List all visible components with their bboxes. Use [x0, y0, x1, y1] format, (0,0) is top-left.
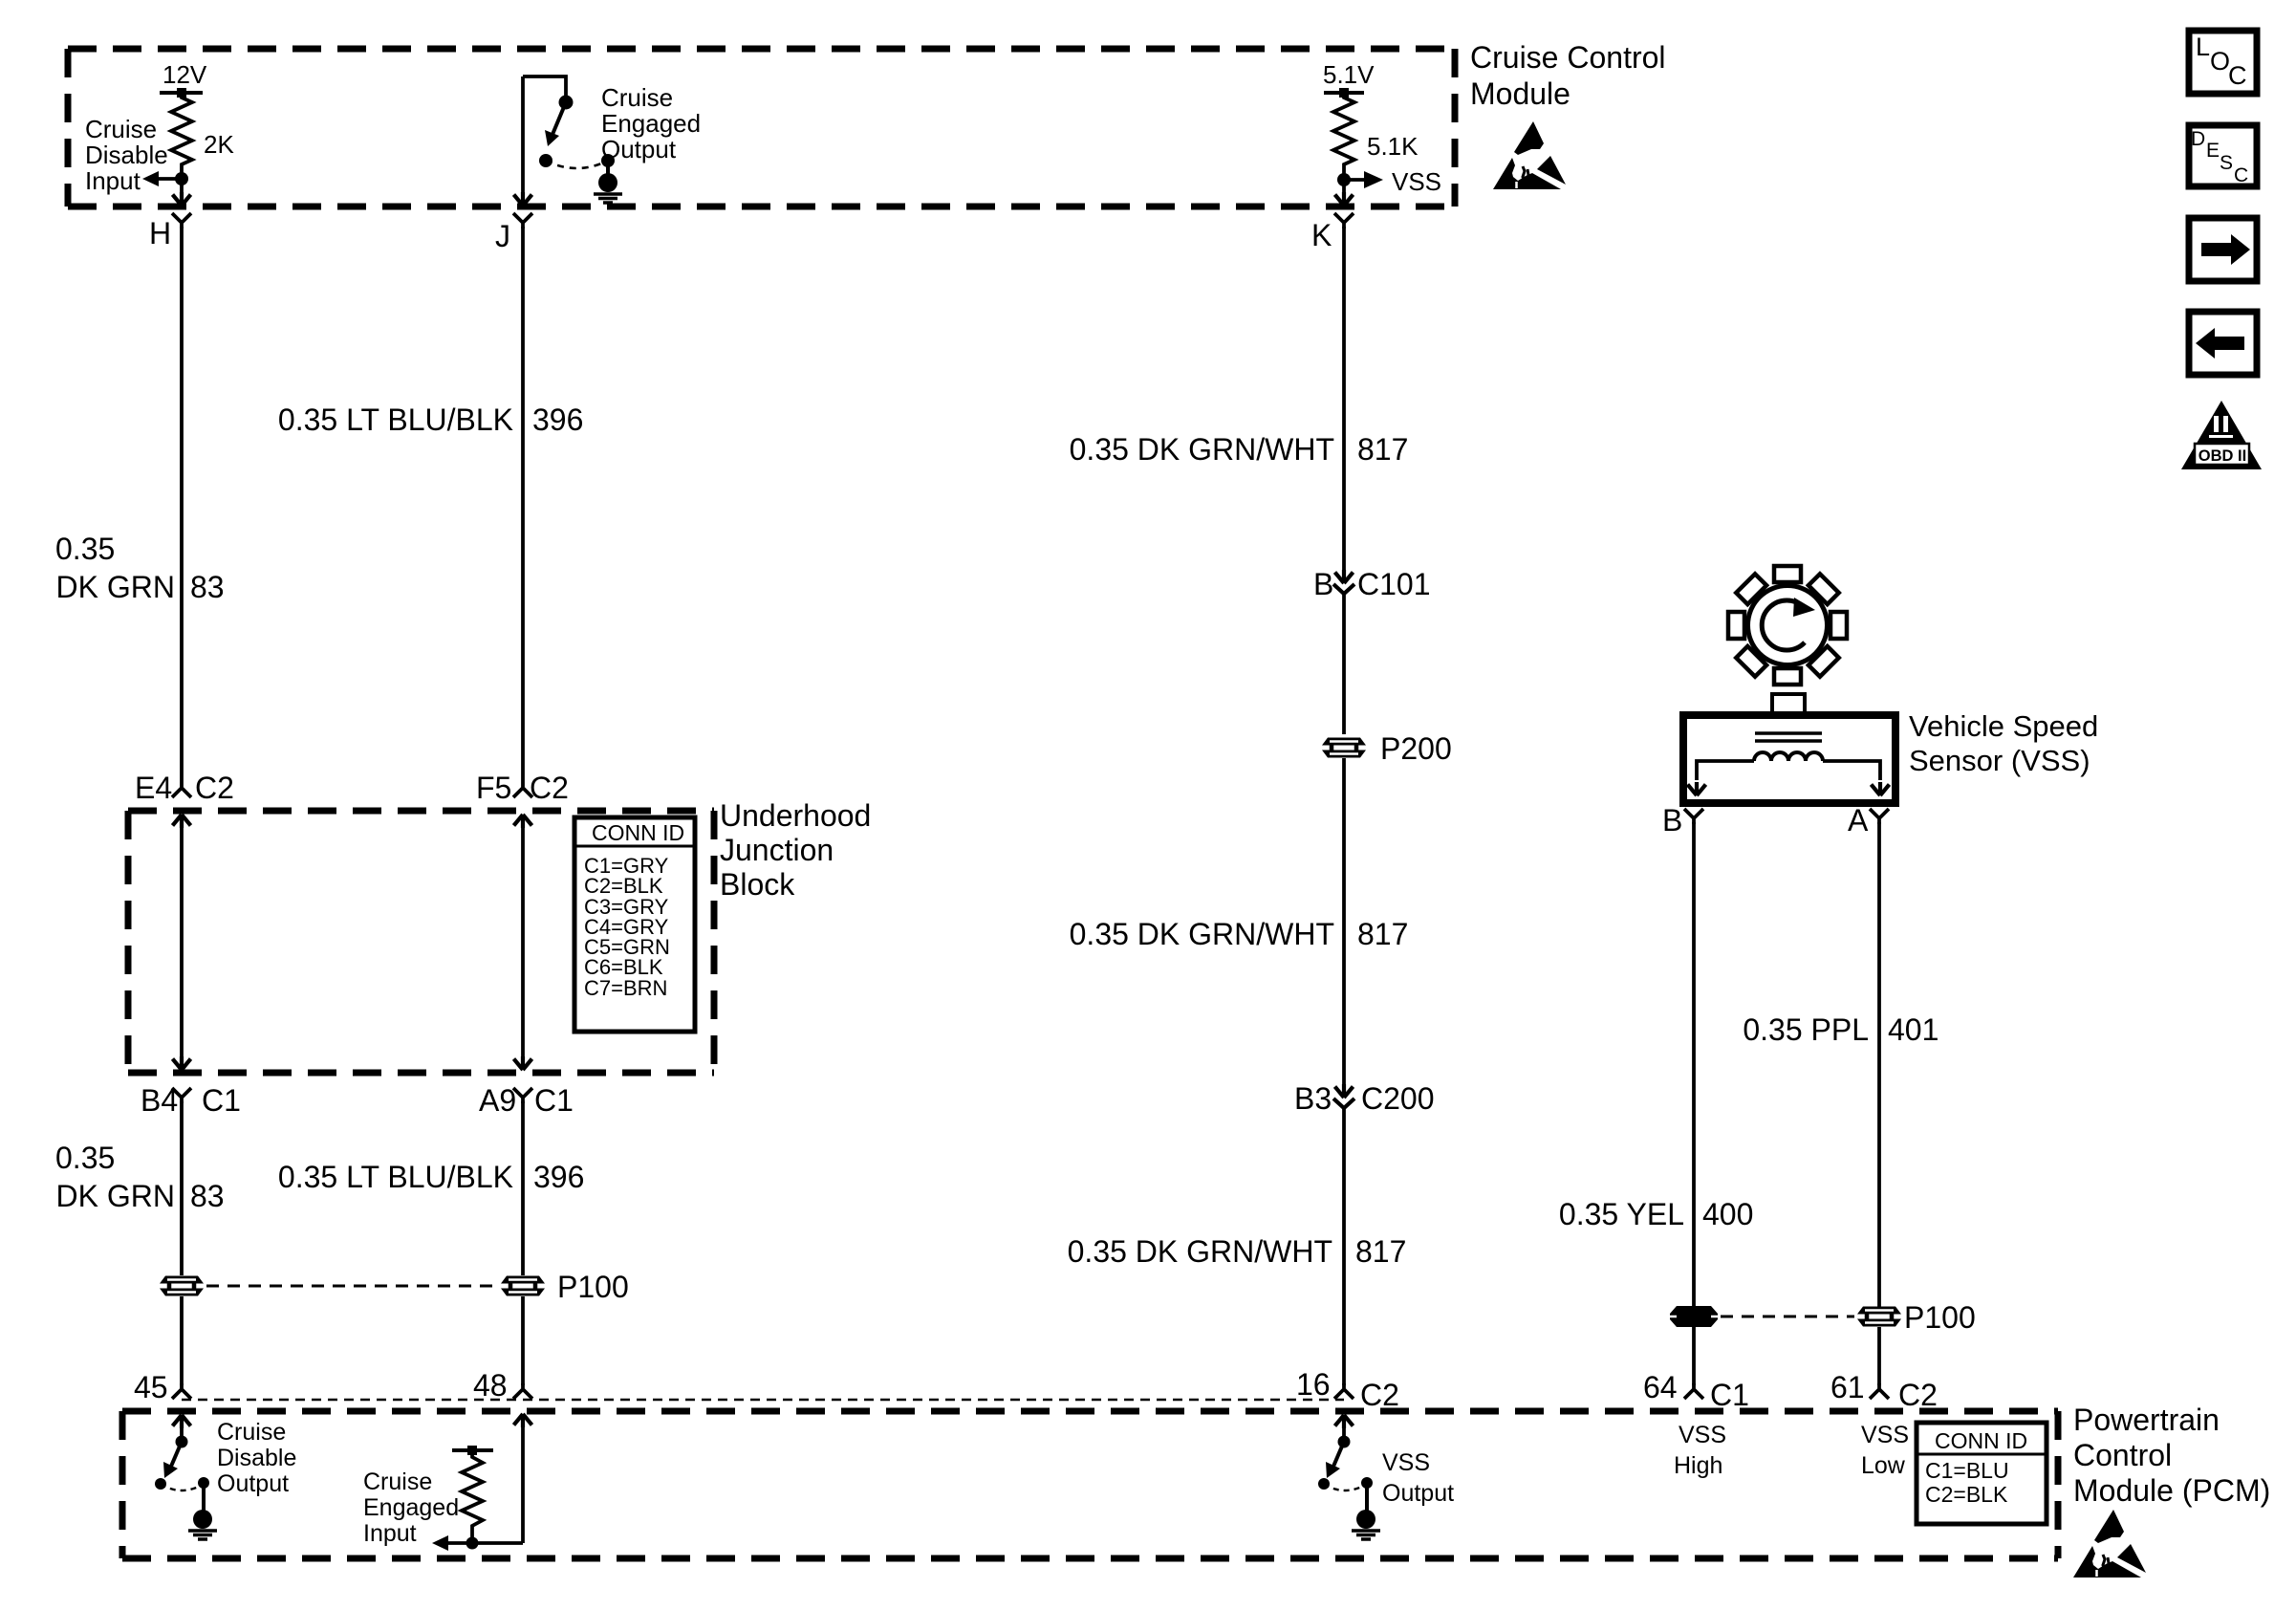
wire A (0.35 PPL 401): [1877, 822, 1881, 1307]
svg-text:5.1V: 5.1V: [1323, 60, 1375, 89]
svg-text:83: 83: [190, 570, 225, 604]
node dot K: [1337, 173, 1351, 186]
label VSS High: [1674, 1422, 1726, 1479]
svg-text:H: H: [149, 216, 171, 250]
svg-text:Engaged: Engaged: [363, 1494, 459, 1521]
svg-text:817: 817: [1357, 432, 1408, 467]
svg-text:45: 45: [134, 1370, 168, 1404]
svg-text:0.35 LT BLU/BLK: 0.35 LT BLU/BLK: [278, 1160, 513, 1194]
svg-text:Disable: Disable: [217, 1445, 296, 1471]
switch VSS Output: [1318, 1415, 1373, 1511]
svg-text:Vehicle Speed: Vehicle Speed: [1909, 709, 2098, 743]
svg-text:CONN ID: CONN ID: [1935, 1428, 2027, 1453]
svg-text:P200: P200: [1380, 731, 1452, 766]
P100 mating dashed line (VSS): [1721, 1316, 1854, 1318]
svg-text:CONN ID: CONN ID: [592, 820, 684, 845]
pin K connector fork: [1311, 213, 1354, 252]
svg-text:12V: 12V: [162, 60, 207, 89]
svg-text:Output: Output: [217, 1470, 289, 1497]
svg-text:396: 396: [532, 402, 583, 437]
inline connector P100 (left half, wire 45): [160, 1276, 204, 1296]
ground (Cruise Disable Output): [188, 1510, 217, 1539]
svg-text:817: 817: [1357, 917, 1408, 951]
UJB internal wire left with arrows: [173, 815, 191, 1070]
svg-text:C2: C2: [1360, 1378, 1399, 1412]
label Cruise Control Module: [1470, 40, 1666, 111]
svg-text:B4: B4: [141, 1083, 178, 1118]
Cruise Control Module dashed box: [68, 49, 1455, 207]
svg-text:O: O: [2210, 47, 2230, 76]
svg-text:B3: B3: [1294, 1081, 1332, 1116]
label Cruise Engaged Input: [363, 1469, 459, 1547]
svg-text:Cruise Control: Cruise Control: [1470, 40, 1666, 75]
svg-text:B: B: [1662, 803, 1682, 838]
wire 48 into PCM with arrow: [514, 1414, 532, 1543]
svg-text:Control: Control: [2073, 1438, 2172, 1472]
pin 64 C1 connector fork: [1643, 1370, 1749, 1412]
svg-text:A: A: [1848, 803, 1869, 838]
wire label 0.35 DK GRN/WHT 817 (middle): [1070, 917, 1409, 951]
svg-text:400: 400: [1702, 1197, 1753, 1231]
svg-text:5.1K: 5.1K: [1367, 132, 1419, 161]
wire P100 to pin 45: [180, 1296, 184, 1385]
wire A9 to P100 (0.35 LT BLU/BLK 396): [521, 1101, 525, 1275]
Cruise Disable Input left arrow: [142, 171, 182, 186]
svg-text:Cruise: Cruise: [363, 1469, 432, 1495]
svg-text:Underhood: Underhood: [720, 798, 871, 833]
wire label 0.35 LT BLU/BLK 396 (upper): [278, 402, 583, 437]
svg-text:0.35 LT BLU/BLK: 0.35 LT BLU/BLK: [278, 402, 513, 437]
svg-text:K: K: [1311, 218, 1332, 252]
wire H stub with arrow into CCM edge: [173, 179, 191, 206]
wire label 0.35 DK GRN/WHT 817 (lower): [1068, 1234, 1407, 1269]
wire J (0.35 LT BLU/BLK 396) CCM to UJB: [521, 227, 525, 782]
node dot H: [175, 172, 188, 185]
svg-text:Powertrain: Powertrain: [2073, 1403, 2220, 1437]
svg-text:C2: C2: [1898, 1378, 1938, 1412]
svg-text:VSS: VSS: [1392, 167, 1441, 196]
svg-text:64: 64: [1643, 1370, 1678, 1404]
forward arrow box: [2189, 218, 2257, 281]
inline connector P100 solid (wire 64): [1670, 1306, 1718, 1327]
wire label 0.35 LT BLU/BLK 396 (lower): [278, 1160, 584, 1194]
pin 48 connector fork: [473, 1368, 532, 1403]
ESD symbol (PCM): [2073, 1510, 2146, 1577]
svg-text:VSS: VSS: [1679, 1422, 1726, 1448]
svg-text:Input: Input: [363, 1520, 417, 1547]
svg-text:A9: A9: [479, 1083, 516, 1118]
label Powertrain Control Module (PCM): [2073, 1403, 2270, 1508]
svg-text:C101: C101: [1357, 567, 1431, 601]
wire K segment C101 to P200: [1342, 594, 1346, 734]
VSS pickup coil: [1754, 752, 1823, 761]
CONN ID table (PCM): [1917, 1423, 2047, 1524]
pin A connector fork: [1848, 803, 1889, 838]
svg-text:C1: C1: [1710, 1378, 1749, 1412]
svg-text:E: E: [2206, 140, 2220, 162]
svg-text:Disable: Disable: [85, 141, 168, 169]
label VSS Output: [1382, 1449, 1454, 1507]
wire B (0.35 YEL 400): [1692, 822, 1696, 1307]
svg-text:0.35 DK GRN/WHT: 0.35 DK GRN/WHT: [1070, 432, 1334, 467]
svg-text:Output: Output: [1382, 1480, 1454, 1507]
pin 16 C2 connector fork: [1296, 1367, 1399, 1412]
svg-text:VSS: VSS: [1861, 1422, 1909, 1448]
svg-text:401: 401: [1888, 1012, 1939, 1047]
pin B4 C1 connector fork: [141, 1083, 241, 1118]
pin B connector fork: [1662, 803, 1703, 838]
connector B3 C200: [1294, 1081, 1435, 1116]
P100 mating dashed line: [206, 1285, 498, 1288]
wire J inside CCM with arrow: [514, 76, 532, 206]
svg-text:0.35: 0.35: [55, 532, 115, 566]
inline connector P100 (wire 61): [1857, 1300, 1976, 1335]
svg-text:Low: Low: [1861, 1452, 1906, 1479]
wire K stub with arrow into CCM edge: [1335, 180, 1354, 206]
svg-text:Cruise: Cruise: [85, 115, 157, 143]
wire K segment C200 to PCM: [1342, 1108, 1346, 1385]
svg-text:P100: P100: [1904, 1300, 1976, 1335]
pin H connector fork: [149, 213, 191, 250]
svg-text:16: 16: [1296, 1367, 1331, 1402]
svg-text:Output: Output: [601, 135, 677, 163]
svg-text:VSS: VSS: [1382, 1449, 1430, 1476]
VSS internal wiring with arrows: [1688, 761, 1890, 795]
wire label 0.35 DK GRN 83 (upper): [55, 532, 225, 604]
svg-text:L: L: [2196, 33, 2210, 61]
svg-text:0.35 DK GRN/WHT: 0.35 DK GRN/WHT: [1070, 917, 1334, 951]
wire label 0.35 DK GRN 83 (lower): [55, 1141, 225, 1213]
UJB internal wire right with arrows: [514, 815, 532, 1070]
wire B4 to P100 (0.35 DK GRN 83): [180, 1101, 184, 1275]
svg-text:High: High: [1674, 1452, 1722, 1479]
ESD symbol (Cruise Control Module): [1493, 121, 1566, 189]
svg-text:83: 83: [190, 1179, 225, 1213]
svg-text:C2: C2: [530, 771, 569, 805]
svg-text:C200: C200: [1361, 1081, 1435, 1116]
wire P100 to pin 64: [1692, 1327, 1696, 1385]
svg-text:Junction: Junction: [720, 833, 834, 867]
5.1V supply bus: [1323, 60, 1375, 98]
svg-text:C1: C1: [534, 1083, 574, 1118]
wire label 0.35 DK GRN/WHT 817 (upper): [1070, 432, 1409, 467]
svg-text:DK GRN: DK GRN: [56, 570, 175, 604]
svg-text:D: D: [2191, 128, 2205, 150]
svg-text:0.35 PPL: 0.35 PPL: [1743, 1012, 1869, 1047]
svg-text:C1=BLU: C1=BLU: [1925, 1458, 2009, 1483]
wire H (0.35 DK GRN 83) CCM to UJB: [180, 227, 184, 782]
wire label 0.35 PPL 401: [1743, 1012, 1939, 1047]
wire P100 to pin 61: [1877, 1327, 1881, 1385]
svg-text:817: 817: [1355, 1234, 1406, 1269]
svg-text:S: S: [2220, 152, 2233, 174]
VSS reluctor gear icon: [1703, 541, 1871, 708]
ground (Cruise Engaged Output): [594, 173, 622, 203]
svg-text:Input: Input: [85, 166, 141, 195]
pin 45 connector fork: [134, 1370, 191, 1404]
connector B C101: [1313, 567, 1431, 601]
resistor 2K: [171, 93, 234, 175]
svg-text:61: 61: [1830, 1370, 1865, 1404]
svg-text:0.35: 0.35: [55, 1141, 115, 1175]
DESC legend box: [2189, 125, 2257, 186]
OBD II symbol: [2181, 401, 2262, 469]
wire label 0.35 YEL 400: [1559, 1197, 1753, 1231]
CONN ID table (Underhood Junction Block): [574, 817, 695, 1032]
pin A9 C1 connector fork: [479, 1083, 574, 1118]
wire P100 to pin 48: [521, 1296, 525, 1385]
wire K (0.35 DK GRN/WHT 817) upper segment: [1342, 227, 1346, 571]
svg-text:C2=BLK: C2=BLK: [1925, 1482, 2008, 1507]
VSS output arrow: [1344, 167, 1441, 196]
label VSS Low: [1861, 1422, 1909, 1479]
pin 61 C2 connector fork: [1830, 1370, 1938, 1412]
PCM interface dashed tie line: [182, 1399, 1344, 1402]
pin E4 C2 connector fork: [135, 771, 234, 805]
svg-text:Block: Block: [720, 867, 795, 902]
pin J connector fork: [495, 213, 532, 253]
svg-text:J: J: [495, 219, 510, 253]
resistor Cruise Engaged Input: [432, 1446, 523, 1551]
svg-text:Module: Module: [1470, 76, 1570, 111]
svg-text:Engaged: Engaged: [601, 109, 701, 138]
svg-text:Cruise: Cruise: [601, 83, 673, 112]
inline connector P100 (right half, wire 48): [501, 1270, 629, 1304]
LOC legend box: [2189, 31, 2257, 94]
ground (VSS Output): [1352, 1510, 1380, 1539]
svg-text:B: B: [1313, 567, 1333, 601]
svg-text:Sensor (VSS): Sensor (VSS): [1909, 744, 2090, 777]
back arrow box: [2189, 312, 2257, 375]
Vehicle Speed Sensor box: [1683, 694, 1895, 803]
svg-text:0.35 DK GRN/WHT: 0.35 DK GRN/WHT: [1068, 1234, 1332, 1269]
svg-text:OBD II: OBD II: [2199, 447, 2246, 465]
label Cruise Engaged Output: [601, 83, 701, 163]
12V supply bus: [160, 60, 207, 98]
svg-text:Module (PCM): Module (PCM): [2073, 1473, 2270, 1508]
Underhood Junction Block dashed box: [128, 811, 714, 1073]
svg-text:396: 396: [533, 1160, 584, 1194]
label Cruise Disable Output: [217, 1419, 296, 1497]
svg-text:C: C: [2234, 164, 2248, 186]
Powertrain Control Module dashed box: [122, 1411, 2058, 1558]
svg-text:C7=BRN: C7=BRN: [584, 976, 667, 1000]
svg-text:48: 48: [473, 1368, 508, 1403]
VSS pickup core lines: [1755, 733, 1822, 741]
svg-text:C2: C2: [195, 771, 234, 805]
svg-text:DK GRN: DK GRN: [56, 1179, 175, 1213]
inline connector P200: [1322, 731, 1452, 766]
svg-text:2K: 2K: [204, 130, 234, 159]
svg-text:C1: C1: [202, 1083, 241, 1118]
label Underhood Junction Block: [720, 798, 871, 902]
svg-text:F5: F5: [476, 771, 511, 805]
svg-text:E4: E4: [135, 771, 172, 805]
svg-text:Cruise: Cruise: [217, 1419, 286, 1446]
svg-text:0.35 YEL: 0.35 YEL: [1559, 1197, 1684, 1231]
svg-text:C: C: [2228, 61, 2247, 90]
switch Cruise Engaged Output: [523, 76, 615, 174]
label Cruise Disable Input: [85, 115, 168, 195]
label Vehicle Speed Sensor (VSS): [1909, 709, 2098, 777]
svg-text:P100: P100: [557, 1270, 629, 1304]
pin F5 C2 connector fork: [476, 771, 569, 805]
wire K segment P200 to C200: [1342, 758, 1346, 1085]
resistor 5.1K: [1333, 93, 1419, 175]
switch Cruise Disable Output: [155, 1415, 209, 1511]
